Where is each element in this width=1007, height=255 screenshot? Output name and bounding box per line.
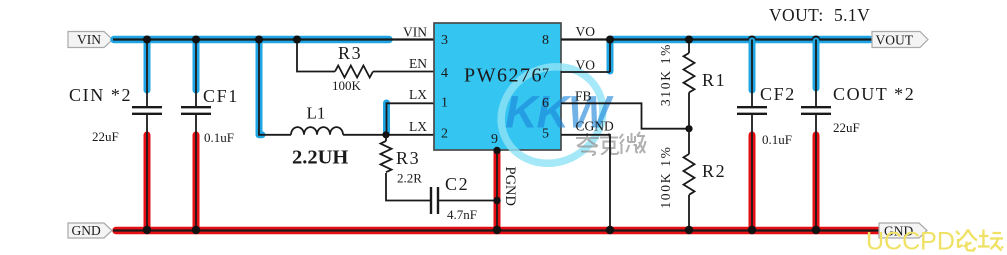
svg-text:CGND: CGND — [576, 119, 615, 134]
wire C2 to PGND — [439, 200, 498, 202]
wire CIN vertical (blue) — [144, 41, 151, 90]
watermark UCCPD forum — [866, 228, 1003, 255]
node dot VO-corner — [606, 35, 614, 43]
svg-text:1: 1 — [441, 96, 448, 111]
wire FB net — [561, 103, 689, 128]
svg-text:VOUT: VOUT — [876, 33, 914, 48]
svg-text:VO: VO — [576, 24, 596, 39]
op-amp U1 PW6276 body — [434, 23, 561, 150]
svg-text:3: 3 — [441, 33, 448, 48]
node dot VIN-L1 — [255, 35, 263, 43]
wire CF1 lower lead black — [195, 115, 197, 230]
capacitor CF1 — [181, 107, 211, 114]
wire VIN horizontal black core — [113, 38, 434, 40]
node dot VO-COUT — [812, 35, 820, 43]
svg-text:4: 4 — [441, 66, 448, 81]
capacitor CIN *2 — [132, 107, 162, 114]
wire COUT lower lead black — [815, 115, 817, 230]
svg-text:100K 1%: 100K 1% — [658, 145, 673, 208]
node dot pin9 — [493, 147, 500, 154]
wire VO vertical link black — [609, 40, 611, 73]
node GND flag left — [68, 223, 112, 238]
wire COUT vertical (blue) — [813, 41, 820, 88]
wire PGND vertical (red) — [494, 153, 501, 228]
svg-text:6: 6 — [542, 96, 549, 111]
node dot GND-R2 — [685, 226, 693, 234]
svg-text:R3: R3 — [396, 148, 420, 168]
node dot VIN-CF1 — [192, 35, 200, 43]
wire CF2 lead black — [751, 40, 753, 107]
watermark kuakewei — [576, 132, 646, 155]
svg-text:GND: GND — [72, 223, 101, 238]
wire PGND black core — [496, 150, 498, 230]
svg-text:PW6276: PW6276 — [464, 65, 543, 87]
resistor R1 — [684, 40, 695, 129]
resistor R3 100K — [335, 66, 373, 78]
resistor R3 2.2R — [381, 141, 392, 172]
node dot VIN-EN — [293, 35, 301, 43]
wire R3 bottom to C2 — [386, 173, 431, 201]
node dot VO-CF2 — [748, 35, 756, 43]
node dot VO-R1 — [685, 35, 693, 43]
node dot GND-CGND — [606, 226, 614, 234]
svg-text:CF1: CF1 — [203, 86, 239, 106]
svg-text:2.2UH: 2.2UH — [292, 147, 348, 169]
svg-text:0.1uF: 0.1uF — [762, 132, 792, 147]
wire GND rail black core — [113, 229, 881, 231]
svg-text:COUT *2: COUT *2 — [833, 84, 915, 104]
svg-text:2: 2 — [441, 127, 448, 142]
wire VO7 stub — [561, 71, 610, 73]
node LX junction — [382, 131, 389, 138]
svg-text:22uF: 22uF — [92, 129, 119, 144]
node dot GND-PGND — [493, 226, 501, 234]
node GND flag right — [879, 223, 927, 239]
svg-text:L1: L1 — [307, 104, 326, 123]
wire LX vertical (blue) — [383, 103, 390, 132]
capacitor C2 — [431, 187, 438, 214]
watermark swoosh — [483, 48, 620, 181]
node dot GND-CF1 — [192, 226, 200, 234]
svg-text:R2: R2 — [702, 161, 726, 181]
wire EN branch vertical — [297, 40, 335, 72]
wire LX pin2 stub — [386, 134, 434, 136]
svg-text:VOUT:: VOUT: — [769, 5, 824, 25]
svg-text:9: 9 — [491, 132, 498, 147]
wire to R3 2.2R — [385, 135, 387, 141]
wire LX pin1 stub — [387, 103, 435, 135]
wire VOUT horizontal (blue) — [611, 36, 870, 44]
capacitor CF2 — [737, 107, 767, 114]
wire CIN lower lead black — [146, 115, 148, 230]
wire L1 input vertical (blue) — [259, 41, 262, 135]
svg-text:0.1uF: 0.1uF — [204, 130, 234, 145]
wire CF1 vertical (blue) — [193, 41, 200, 90]
svg-text:7: 7 — [542, 67, 549, 82]
resistor R2 — [684, 129, 695, 230]
svg-text:100K: 100K — [332, 78, 362, 93]
svg-text:2.2R: 2.2R — [397, 171, 422, 186]
wire VO vertical (blue) — [607, 41, 614, 71]
svg-text:FB: FB — [575, 89, 592, 104]
inductor L1 — [291, 127, 343, 135]
node dot GND-CIN — [143, 226, 151, 234]
wire CF1 lower (red) — [193, 135, 200, 228]
svg-text:C2: C2 — [445, 174, 469, 194]
svg-text:VIN: VIN — [77, 32, 101, 47]
node dot GND-CF2 — [748, 226, 756, 234]
node VOUT flag — [872, 32, 928, 48]
node FB junction — [685, 125, 692, 132]
wire L1 to LX junction — [343, 134, 386, 136]
svg-text:VO: VO — [576, 58, 596, 73]
svg-text:4.7nF: 4.7nF — [447, 207, 477, 222]
wire L1 input black core — [259, 40, 291, 135]
svg-text:LX: LX — [409, 87, 427, 102]
wire CF2 lower (red) — [749, 135, 756, 228]
wire VO horizontal black core — [561, 38, 872, 40]
svg-text:R3: R3 — [338, 43, 362, 63]
wire EN to pin4 — [373, 71, 434, 73]
svg-text:VIN: VIN — [403, 25, 427, 40]
node dot VIN-CIN — [143, 35, 151, 43]
svg-text:310K 1%: 310K 1% — [658, 43, 673, 106]
wire CIN lower (red) — [144, 135, 151, 228]
svg-text:8: 8 — [542, 33, 549, 48]
wire VIN horizontal (blue) — [114, 36, 389, 44]
svg-text:R1: R1 — [702, 70, 726, 90]
capacitor COUT *2 — [801, 107, 831, 114]
wire COUT lead black — [815, 40, 817, 107]
node VIN flag — [68, 32, 113, 48]
svg-text:LX: LX — [409, 119, 427, 134]
wire COUT lower (red) — [813, 135, 820, 228]
wire CF2 vertical (blue) — [749, 41, 756, 90]
node dot GND-COUT — [812, 226, 820, 234]
svg-text:EN: EN — [409, 56, 427, 71]
wire CIN lead black — [146, 40, 148, 107]
svg-text:22uF: 22uF — [833, 120, 860, 135]
wire CF1 lead black — [195, 40, 197, 107]
wire GND rail (red) — [116, 227, 879, 235]
svg-text:5: 5 — [542, 127, 549, 142]
svg-text:PGND: PGND — [502, 167, 518, 206]
svg-text:CIN *2: CIN *2 — [69, 85, 132, 105]
svg-text:CF2: CF2 — [760, 84, 796, 104]
wire CGND net — [561, 135, 610, 230]
node dot C2-PGND — [493, 197, 500, 204]
svg-text:UCCPD: UCCPD — [866, 228, 955, 255]
wire CF2 lower lead black — [751, 115, 753, 230]
svg-text:5.1V: 5.1V — [834, 5, 870, 25]
